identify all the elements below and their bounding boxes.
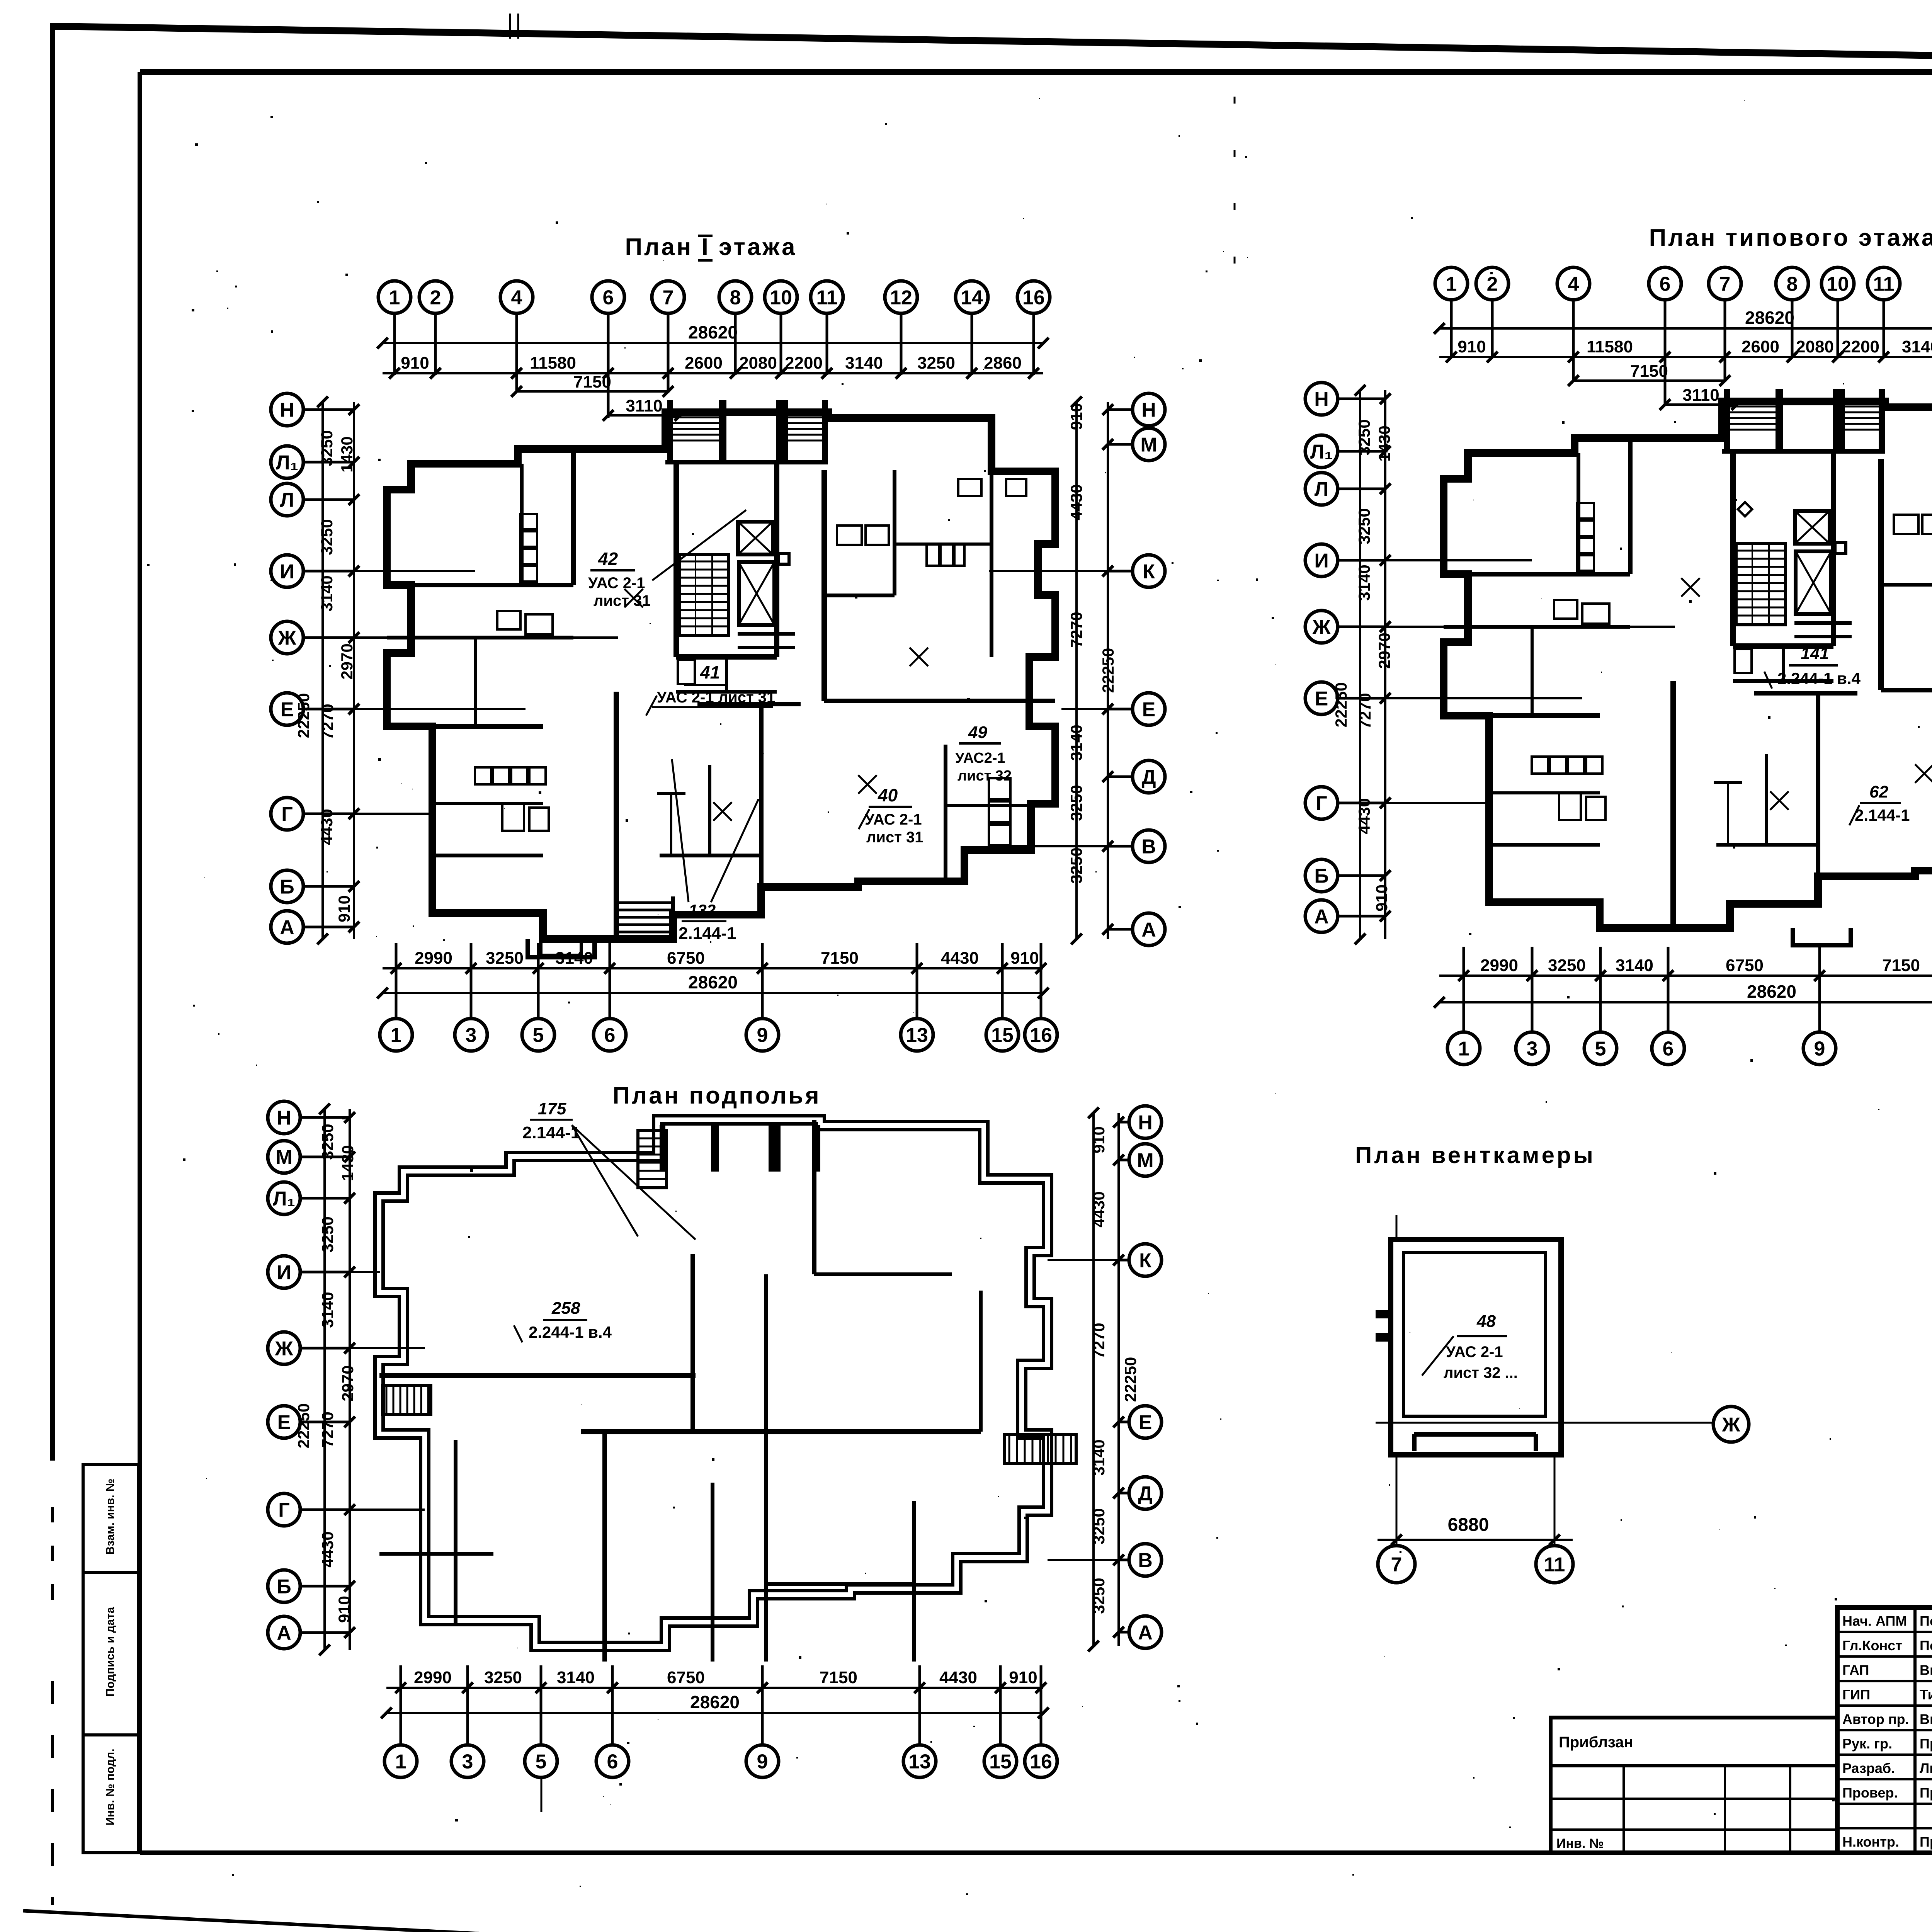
svg-text:12: 12 [890, 287, 912, 309]
fold mark dashes between plans [1234, 97, 1236, 301]
svg-text:6: 6 [607, 1751, 618, 1773]
side dimension lines [349, 1109, 351, 1650]
svg-text:лист 32 ...: лист 32 ... [1444, 1364, 1518, 1381]
svg-text:10: 10 [1827, 273, 1849, 296]
svg-text:6: 6 [604, 1024, 616, 1047]
svg-text:Л: Л [280, 489, 294, 512]
svg-text:16: 16 [1022, 287, 1045, 309]
side dimension lines [1384, 390, 1386, 939]
side dimension lines [1107, 402, 1109, 939]
svg-text:4430: 4430 [1355, 798, 1373, 834]
axis 6 bottom circle [1652, 1032, 1684, 1065]
svg-text:141: 141 [1801, 644, 1829, 663]
svg-text:2990: 2990 [414, 1668, 452, 1687]
axis Д side circle [1133, 760, 1165, 793]
axis 1 top circle [1435, 267, 1468, 300]
svg-text:7: 7 [1391, 1554, 1402, 1576]
vent chamber outer wall [1391, 1240, 1561, 1455]
svg-text:13: 13 [908, 1751, 931, 1773]
svg-text:3140: 3140 [1616, 956, 1653, 975]
axis 2 top circle [1476, 267, 1509, 300]
svg-text:3: 3 [462, 1751, 473, 1773]
svg-text:16: 16 [1030, 1024, 1052, 1047]
svg-text:Полстянев: Полстянев [1920, 1613, 1932, 1629]
top dimension line segments [383, 372, 1043, 374]
axis Б side circle [271, 870, 303, 903]
axis А side circle [271, 911, 303, 943]
axis 1 bottom circle [384, 1745, 417, 1777]
svg-text:УАС 2-1: УАС 2-1 [865, 811, 922, 828]
scan speckles [1172, 562, 1173, 564]
svg-text:лист 31: лист 31 [866, 829, 923, 846]
axis 3 bottom circle [1516, 1032, 1548, 1065]
svg-text:11580: 11580 [1587, 337, 1633, 356]
axis Е side circle [1133, 693, 1165, 725]
svg-text:22250: 22250 [294, 1403, 313, 1449]
axis 1 top circle [378, 281, 411, 313]
plan 3 stray leader below axis 5 [541, 1779, 543, 1812]
svg-text:910: 910 [1458, 337, 1486, 356]
svg-text:7270: 7270 [1090, 1323, 1108, 1359]
svg-text:7150: 7150 [821, 949, 859, 968]
axis М side circle [1133, 428, 1165, 461]
svg-text:3140: 3140 [557, 1668, 595, 1687]
svg-text:910: 910 [1009, 1668, 1037, 1687]
svg-text:22250: 22250 [1121, 1357, 1139, 1402]
plan variant 1: extra partitions [387, 636, 573, 639]
svg-text:16: 16 [1030, 1751, 1052, 1773]
svg-text:3250: 3250 [486, 949, 524, 968]
axis Г side circle [271, 798, 303, 830]
axis 7 top circle [1709, 267, 1741, 300]
svg-text:9: 9 [1814, 1038, 1825, 1060]
svg-text:15: 15 [989, 1751, 1012, 1773]
top center tick marks [509, 14, 511, 39]
axis Л side circle [271, 483, 303, 516]
axis Л side circle [1305, 473, 1338, 505]
left margin stamp boxes [83, 1464, 138, 1853]
top extra dim 7150 [517, 390, 668, 393]
svg-text:2600: 2600 [1742, 337, 1779, 356]
svg-text:7: 7 [1719, 273, 1731, 296]
svg-text:Лишевская: Лишевская [1920, 1760, 1932, 1776]
svg-text:4430: 4430 [318, 1531, 337, 1567]
top dimension line total [1439, 327, 1932, 330]
svg-text:28620: 28620 [1745, 308, 1794, 328]
plan variant 2: balcony piers and hatch [1724, 389, 1730, 451]
svg-text:1: 1 [1458, 1038, 1469, 1060]
title block: left attachment table [1551, 1718, 1837, 1853]
vent chamber inner wall [1403, 1253, 1546, 1416]
svg-text:Пристински: Пристински [1920, 1785, 1932, 1801]
vent chamber lower wall [1414, 1432, 1536, 1437]
side dimension lines [1117, 1113, 1120, 1646]
svg-text:2.144-1: 2.144-1 [1855, 806, 1910, 824]
plan variant 2: stair core [1730, 451, 1736, 646]
axis Д side circle [1129, 1477, 1162, 1509]
svg-text:11: 11 [1873, 273, 1895, 296]
plan variant 2: door marks [1681, 578, 1700, 597]
svg-text:И: И [277, 1262, 291, 1284]
bottom dimension line total [383, 992, 1043, 994]
svg-text:3250: 3250 [318, 1124, 337, 1160]
axis Ж side circle [1305, 611, 1338, 643]
axis 6 top circle [592, 281, 624, 313]
plan variant 1: stair core [673, 462, 679, 657]
svg-text:910: 910 [1372, 884, 1391, 912]
axis 6 top circle [1649, 267, 1681, 300]
svg-text:2970: 2970 [338, 643, 356, 679]
svg-text:40: 40 [878, 785, 898, 805]
svg-text:6750: 6750 [667, 1668, 705, 1687]
svg-text:Е: Е [277, 1412, 291, 1434]
plan variant 2: outer walls [1444, 401, 1932, 928]
svg-text:4430: 4430 [1067, 484, 1085, 520]
axis Б side circle [268, 1570, 300, 1602]
top extra dim 3110 [608, 414, 680, 417]
axis В side circle [1133, 830, 1165, 862]
svg-text:3140: 3140 [1067, 724, 1085, 760]
outer paper border left [50, 23, 55, 1461]
axis 13 bottom circle [901, 1019, 933, 1051]
svg-text:910: 910 [401, 354, 429, 372]
svg-text:Н: Н [1314, 388, 1329, 411]
svg-text:9: 9 [757, 1024, 768, 1047]
svg-text:Г: Г [278, 1499, 289, 1522]
axis 16 top circle [1017, 281, 1050, 313]
plan variant 2: elevator shafts [1795, 511, 1830, 544]
svg-text:8: 8 [730, 287, 741, 309]
svg-text:3250: 3250 [1090, 1508, 1108, 1544]
svg-text:Н: Н [1141, 399, 1156, 422]
svg-text:5: 5 [533, 1024, 544, 1047]
svg-text:6750: 6750 [1726, 956, 1764, 975]
axis 1 bottom circle [1447, 1032, 1480, 1065]
svg-text:3250: 3250 [318, 430, 336, 466]
axis Н side circle [271, 393, 303, 426]
svg-text:Б: Б [1314, 865, 1328, 888]
svg-text:13: 13 [906, 1024, 928, 1047]
svg-text:Инв. № подл.: Инв. № подл. [104, 1748, 117, 1825]
svg-text:План подполья: План подполья [612, 1082, 821, 1109]
axis 10 top circle [765, 281, 797, 313]
svg-text:Разраб.: Разраб. [1842, 1760, 1895, 1776]
svg-text:А: А [277, 1622, 291, 1645]
svg-text:3140: 3140 [555, 949, 593, 968]
axis Г side circle [268, 1493, 300, 1526]
plan 3 interior walls [379, 1373, 696, 1378]
svg-text:1430: 1430 [1375, 425, 1393, 461]
svg-text:1: 1 [395, 1751, 406, 1773]
svg-text:4430: 4430 [939, 1668, 977, 1687]
top extra dim 7150 [1573, 379, 1725, 382]
svg-text:Л₁: Л₁ [273, 1188, 295, 1210]
svg-text:3250: 3250 [1067, 785, 1085, 821]
axis 14 top circle [956, 281, 988, 313]
svg-text:3140: 3140 [845, 354, 883, 372]
svg-text:УАС 2-1 лист 31: УАС 2-1 лист 31 [657, 689, 775, 706]
svg-text:Б: Б [277, 1576, 291, 1598]
axis В side circle [1129, 1544, 1162, 1576]
svg-text:Н.контр.: Н.контр. [1842, 1834, 1899, 1850]
svg-text:2860: 2860 [984, 354, 1022, 372]
svg-text:3250: 3250 [1355, 508, 1373, 544]
axis К side circle [1129, 1244, 1162, 1276]
axis И side circle [271, 555, 303, 587]
axis 8 top circle [719, 281, 752, 313]
svg-text:28620: 28620 [688, 322, 738, 342]
axis Е side circle [268, 1406, 300, 1438]
svg-text:А: А [1314, 906, 1329, 928]
svg-text:28620: 28620 [688, 972, 738, 992]
plan variant 1: interior walls center [759, 704, 764, 887]
axis Г side circle [1305, 787, 1338, 819]
svg-text:Л₁: Л₁ [1310, 441, 1333, 463]
plan variant 2: interior walls right flat [1878, 459, 1884, 690]
vent chamber axis 11 leader [1554, 1455, 1556, 1545]
axis 16 bottom circle [1025, 1745, 1057, 1777]
svg-text:2.144-1: 2.144-1 [679, 924, 736, 943]
svg-text:3250: 3250 [1548, 956, 1586, 975]
plan variant 1: balcony piers and hatch [667, 400, 673, 462]
svg-text:3250: 3250 [917, 354, 955, 372]
svg-text:3140: 3140 [318, 1292, 337, 1328]
svg-text:3140: 3140 [1355, 565, 1373, 600]
svg-text:910: 910 [1010, 949, 1039, 968]
svg-text:ГИП: ГИП [1842, 1687, 1870, 1702]
svg-text:42: 42 [598, 549, 618, 569]
svg-text:7150: 7150 [820, 1668, 857, 1687]
axis 9 bottom circle [746, 1019, 779, 1051]
axis 13 bottom circle [903, 1745, 936, 1777]
svg-text:1: 1 [1446, 273, 1457, 296]
bottom dimension line segments [386, 1687, 1043, 1689]
svg-text:К: К [1143, 561, 1155, 583]
svg-text:11580: 11580 [530, 354, 576, 372]
plan 2 deep axis leaders [1572, 357, 1575, 382]
svg-text:План типового этажа: План типового этажа [1649, 224, 1932, 251]
svg-text:Н: Н [280, 399, 294, 422]
svg-text:Г: Г [281, 803, 293, 826]
axis М side circle [1129, 1144, 1162, 1176]
svg-text:49: 49 [968, 723, 987, 742]
plan variant 2: interior walls center [1816, 693, 1820, 876]
svg-text:48: 48 [1476, 1312, 1496, 1331]
svg-text:6750: 6750 [667, 949, 705, 968]
svg-text:6: 6 [603, 287, 614, 309]
svg-text:5: 5 [1595, 1038, 1606, 1060]
axis 3 bottom circle [455, 1019, 487, 1051]
svg-text:258: 258 [551, 1299, 580, 1318]
svg-text:3: 3 [466, 1024, 477, 1047]
svg-text:лист 31: лист 31 [594, 592, 650, 609]
svg-text:ГАП: ГАП [1842, 1662, 1869, 1678]
plan variant 2: interior walls left flat [1577, 453, 1580, 574]
svg-text:М: М [276, 1146, 292, 1169]
svg-text:7150: 7150 [1630, 362, 1668, 381]
axis Е side circle [271, 693, 303, 725]
plan 2: diamond mark [1738, 502, 1752, 517]
outer paper border top [54, 26, 1932, 66]
axis 7 top circle [652, 281, 684, 313]
svg-text:лист 32: лист 32 [957, 768, 1012, 784]
plan variant 1: interior walls left flat [520, 464, 524, 585]
svg-text:Вигдергауз: Вигдергауз [1920, 1711, 1932, 1727]
axis 11 top circle [811, 281, 843, 313]
plan variant 1: interior walls right flat [821, 470, 827, 701]
svg-text:Приблзан: Приблзан [1559, 1734, 1633, 1751]
svg-text:Е: Е [1139, 1412, 1152, 1434]
axis Н side circle [1305, 383, 1338, 415]
svg-text:Тимарчев: Тимарчев [1920, 1687, 1932, 1702]
svg-text:1: 1 [391, 1024, 402, 1047]
axis Б side circle [1305, 859, 1338, 892]
svg-text:28620: 28620 [1747, 981, 1796, 1002]
svg-text:Л₁: Л₁ [276, 452, 298, 474]
svg-text:УАС2-1: УАС2-1 [955, 750, 1005, 766]
svg-text:4430: 4430 [318, 809, 336, 845]
svg-text:Ж: Ж [1312, 616, 1331, 639]
svg-text:А: А [280, 917, 294, 939]
svg-text:И: И [1314, 550, 1328, 572]
svg-text:132: 132 [689, 901, 716, 919]
svg-text:7270: 7270 [1356, 693, 1374, 729]
side dimension lines [353, 402, 355, 939]
svg-text:910: 910 [335, 1596, 353, 1623]
plan 1: entrance steps hatch [614, 896, 617, 939]
axis 9 bottom circle [746, 1745, 779, 1777]
axis 3 bottom circle [451, 1745, 484, 1777]
svg-text:План венткамеры: План венткамеры [1355, 1142, 1595, 1168]
plan variant 3: outer walls [379, 1120, 1048, 1646]
plan 2: bottom entrance protrusion [1793, 928, 1851, 945]
axis 15 bottom circle [984, 1745, 1017, 1777]
svg-text:2.244-1 в.4: 2.244-1 в.4 [1777, 669, 1861, 687]
top dimension line total [383, 342, 1043, 344]
axis 6 bottom circle [594, 1019, 626, 1051]
svg-text:6: 6 [1663, 1038, 1674, 1060]
bottom dimension line total [386, 1712, 1043, 1714]
svg-text:7270: 7270 [318, 704, 337, 740]
svg-text:М: М [1140, 434, 1157, 456]
axis 1 bottom circle [380, 1019, 412, 1051]
svg-text:В: В [1141, 836, 1156, 858]
axis 12 top circle [885, 281, 917, 313]
svg-text:2080: 2080 [739, 354, 777, 372]
axis 9 bottom circle [1803, 1032, 1836, 1065]
svg-text:910: 910 [1090, 1126, 1108, 1153]
svg-text:В: В [1138, 1549, 1153, 1572]
svg-text:Д: Д [1138, 1483, 1152, 1505]
svg-text:6: 6 [1660, 273, 1671, 296]
svg-text:28620: 28620 [690, 1692, 740, 1712]
svg-text:2600: 2600 [685, 354, 723, 372]
svg-text:План I этажа: План I этажа [625, 234, 797, 260]
svg-text:Е: Е [1315, 688, 1328, 710]
svg-text:Е: Е [1142, 699, 1156, 721]
svg-text:Е: Е [281, 699, 294, 721]
axis А side circle [268, 1616, 300, 1649]
axis 2 top circle [419, 281, 452, 313]
svg-text:УАС 2-1: УАС 2-1 [588, 575, 645, 592]
axis 16 bottom circle [1025, 1019, 1057, 1051]
svg-text:3250: 3250 [318, 1216, 337, 1252]
svg-text:22250: 22250 [1332, 682, 1350, 728]
svg-text:14: 14 [961, 287, 983, 309]
svg-text:2990: 2990 [1480, 956, 1518, 975]
axis Ж side circle [271, 621, 303, 654]
plan variant 1: elevator shafts [738, 522, 773, 554]
svg-text:22250: 22250 [294, 693, 313, 738]
inner drawing frame [140, 69, 1932, 75]
svg-text:8: 8 [1787, 273, 1798, 296]
svg-text:Пристински: Пристински [1920, 1834, 1932, 1850]
svg-text:Подпись и дата: Подпись и дата [104, 1607, 117, 1697]
svg-text:1430: 1430 [338, 436, 356, 472]
plan 3 top stair hatch [638, 1131, 667, 1188]
axis 15 bottom circle [986, 1019, 1019, 1051]
svg-text:Л: Л [1315, 478, 1329, 501]
svg-text:41: 41 [700, 662, 720, 682]
axis Н side circle [268, 1101, 300, 1134]
bottom dimension line segments [1439, 975, 1932, 977]
top dimension line segments [1439, 356, 1932, 358]
svg-text:Ж: Ж [1722, 1414, 1741, 1436]
axis Л₁ side circle [271, 446, 303, 478]
plan 3 left stair hatch [383, 1386, 431, 1415]
svg-text:11: 11 [1544, 1554, 1565, 1576]
svg-text:Взам. инв. №: Взам. инв. № [104, 1479, 117, 1555]
svg-text:Ж: Ж [278, 627, 297, 650]
svg-text:4430: 4430 [1090, 1191, 1108, 1227]
svg-text:Нач. АПМ: Нач. АПМ [1842, 1613, 1907, 1629]
svg-text:Польшин: Польшин [1920, 1638, 1932, 1653]
axis И side circle [268, 1256, 300, 1288]
axis К side circle [1133, 555, 1165, 587]
svg-text:2: 2 [430, 287, 441, 309]
svg-text:6880: 6880 [1448, 1515, 1489, 1535]
svg-text:2080: 2080 [1796, 337, 1834, 356]
svg-text:3250: 3250 [1067, 847, 1085, 883]
svg-text:Ж: Ж [275, 1338, 294, 1360]
svg-text:2200: 2200 [785, 354, 823, 372]
svg-text:175: 175 [538, 1099, 566, 1118]
svg-text:3250: 3250 [484, 1668, 522, 1687]
svg-text:3: 3 [1527, 1038, 1538, 1060]
svg-text:7: 7 [663, 287, 674, 309]
axis А side circle [1129, 1616, 1162, 1648]
svg-text:Н: Н [1138, 1112, 1153, 1134]
svg-text:1430: 1430 [338, 1145, 357, 1181]
axis 4 top circle [1557, 267, 1590, 300]
plan 3 top piers and hatch [660, 1125, 665, 1172]
svg-text:3140: 3140 [1090, 1439, 1108, 1475]
axis Л₁ side circle [1305, 435, 1338, 468]
svg-text:3250: 3250 [318, 519, 336, 555]
axis Ж side circle [268, 1332, 300, 1364]
svg-text:2.244-1 в.4: 2.244-1 в.4 [529, 1323, 612, 1341]
svg-text:62: 62 [1869, 782, 1888, 801]
top extra dim 3110 [1665, 403, 1737, 406]
svg-text:10: 10 [770, 287, 792, 309]
axis 5 bottom circle [1584, 1032, 1617, 1065]
plan 3 right stair hatch [1005, 1434, 1076, 1463]
svg-text:К: К [1139, 1250, 1151, 1272]
svg-text:910: 910 [1067, 403, 1085, 430]
svg-text:9: 9 [757, 1751, 768, 1773]
svg-text:2970: 2970 [1375, 633, 1393, 668]
svg-text:3110: 3110 [1682, 386, 1719, 405]
